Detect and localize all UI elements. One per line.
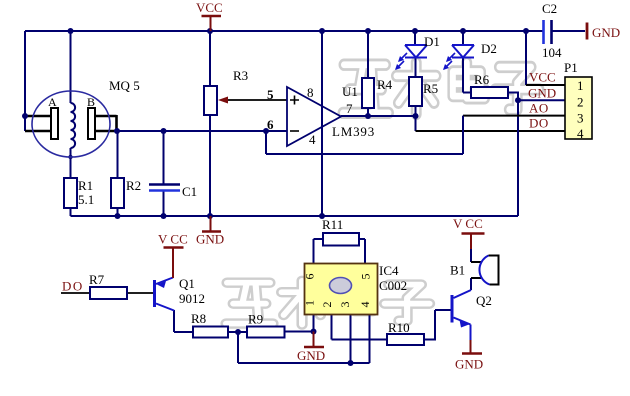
svg-text:104: 104: [542, 45, 562, 60]
svg-text:R11: R11: [322, 217, 343, 232]
svg-text:GND: GND: [196, 232, 224, 247]
svg-text:GND: GND: [455, 357, 483, 372]
svg-text:7: 7: [346, 101, 353, 116]
svg-text:VCC: VCC: [196, 0, 223, 15]
svg-text:6: 6: [303, 274, 317, 280]
svg-text:R2: R2: [126, 178, 141, 193]
svg-text:C2: C2: [542, 1, 557, 16]
svg-text:2: 2: [320, 302, 334, 308]
svg-text:MQ 5: MQ 5: [109, 78, 140, 93]
svg-text:8: 8: [307, 85, 314, 100]
svg-text:1: 1: [303, 300, 317, 306]
svg-text:GND: GND: [592, 25, 620, 40]
svg-text:DO: DO: [62, 279, 84, 294]
svg-text:3: 3: [577, 111, 584, 126]
svg-text:IC4: IC4: [379, 263, 399, 278]
svg-text:R8: R8: [191, 311, 206, 326]
svg-text:R3: R3: [233, 68, 248, 83]
svg-text:R5: R5: [423, 81, 438, 96]
svg-text:4: 4: [577, 126, 584, 141]
svg-text:U1: U1: [342, 84, 358, 99]
svg-text:5: 5: [359, 274, 373, 280]
svg-text:LM393: LM393: [332, 124, 375, 139]
svg-text:9012: 9012: [179, 291, 205, 306]
svg-text:D1: D1: [424, 34, 440, 49]
svg-text:5: 5: [267, 87, 274, 102]
svg-text:A: A: [48, 95, 57, 109]
svg-text:C002: C002: [379, 278, 407, 293]
svg-text:R6: R6: [474, 72, 490, 87]
svg-text:V CC: V CC: [158, 232, 188, 247]
svg-text:D2: D2: [481, 41, 497, 56]
svg-text:4: 4: [309, 132, 316, 147]
svg-text:R9: R9: [248, 312, 263, 327]
svg-text:Q2: Q2: [476, 293, 492, 308]
svg-text:R10: R10: [388, 320, 410, 335]
svg-text:3: 3: [338, 302, 352, 308]
svg-text:V CC: V CC: [453, 216, 483, 231]
svg-text:R4: R4: [377, 77, 393, 92]
svg-text:GND: GND: [528, 86, 556, 101]
svg-text:VCC: VCC: [529, 70, 556, 85]
svg-text:R1: R1: [78, 178, 93, 193]
svg-text:Q1: Q1: [179, 276, 195, 291]
svg-text:R7: R7: [89, 272, 105, 287]
svg-text:4: 4: [358, 302, 372, 308]
svg-text:AO: AO: [529, 101, 549, 116]
svg-text:B: B: [87, 95, 95, 109]
svg-text:P1: P1: [564, 60, 578, 75]
svg-text:1: 1: [577, 78, 584, 93]
svg-text:C1: C1: [182, 184, 197, 199]
svg-text:GND: GND: [297, 348, 325, 363]
svg-text:2: 2: [577, 95, 584, 110]
svg-text:B1: B1: [450, 263, 465, 278]
svg-text:DO: DO: [529, 116, 549, 131]
svg-text:5.1: 5.1: [78, 192, 94, 207]
svg-text:6: 6: [267, 117, 274, 132]
